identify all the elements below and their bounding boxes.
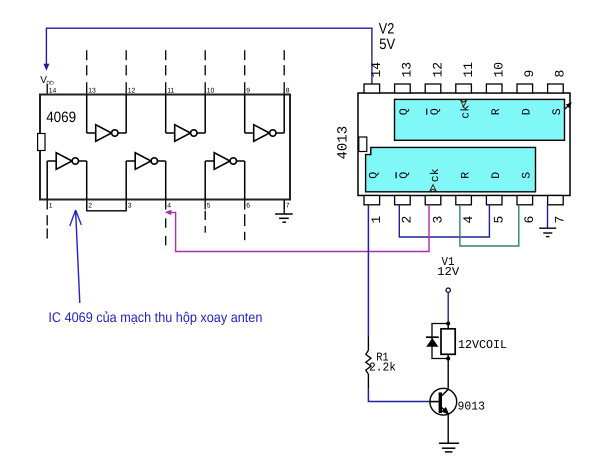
svg-text:4: 4 [167, 203, 171, 210]
svg-text:6: 6 [522, 216, 537, 224]
svg-text:9: 9 [522, 70, 537, 78]
svg-text:5V: 5V [379, 36, 395, 53]
svg-text:S: S [521, 172, 534, 179]
svg-text:1: 1 [49, 203, 53, 210]
svg-text:12VCOIL: 12VCOIL [458, 338, 507, 352]
svg-text:12: 12 [430, 62, 445, 78]
svg-text:2.2k: 2.2k [369, 360, 396, 374]
svg-text:D: D [521, 108, 534, 115]
svg-text:Q: Q [368, 172, 381, 179]
svg-text:8: 8 [553, 70, 568, 78]
svg-text:10: 10 [492, 62, 507, 78]
svg-text:R: R [459, 172, 472, 179]
svg-text:R: R [490, 108, 503, 115]
svg-text:4013: 4013 [335, 126, 351, 160]
svg-text:2: 2 [88, 203, 92, 210]
svg-text:Q: Q [429, 108, 442, 115]
svg-text:4: 4 [461, 216, 476, 224]
svg-text:5: 5 [207, 203, 211, 210]
svg-text:ck: ck [429, 168, 442, 182]
svg-text:5: 5 [492, 216, 507, 224]
svg-text:Q: Q [398, 172, 411, 179]
svg-text:2: 2 [400, 216, 415, 224]
svg-text:9013: 9013 [458, 399, 486, 413]
svg-text:3: 3 [430, 216, 445, 224]
svg-text:IC 4069 của mạch thu hộp xoay: IC 4069 của mạch thu hộp xoay anten [48, 309, 262, 325]
svg-text:12V: 12V [437, 265, 460, 279]
svg-text:3: 3 [128, 203, 132, 210]
svg-text:7: 7 [553, 216, 568, 224]
svg-text:7: 7 [286, 203, 290, 210]
svg-text:4069: 4069 [46, 109, 76, 126]
svg-text:DD: DD [46, 80, 54, 86]
svg-text:ck: ck [459, 105, 472, 119]
svg-text:S: S [551, 108, 564, 115]
svg-text:14: 14 [369, 62, 384, 78]
svg-text:6: 6 [246, 203, 250, 210]
svg-text:D: D [490, 172, 503, 179]
svg-text:11: 11 [461, 62, 476, 78]
svg-text:V2: V2 [379, 20, 395, 37]
svg-text:13: 13 [400, 62, 415, 78]
svg-text:Q: Q [398, 108, 411, 115]
svg-text:1: 1 [369, 216, 384, 224]
